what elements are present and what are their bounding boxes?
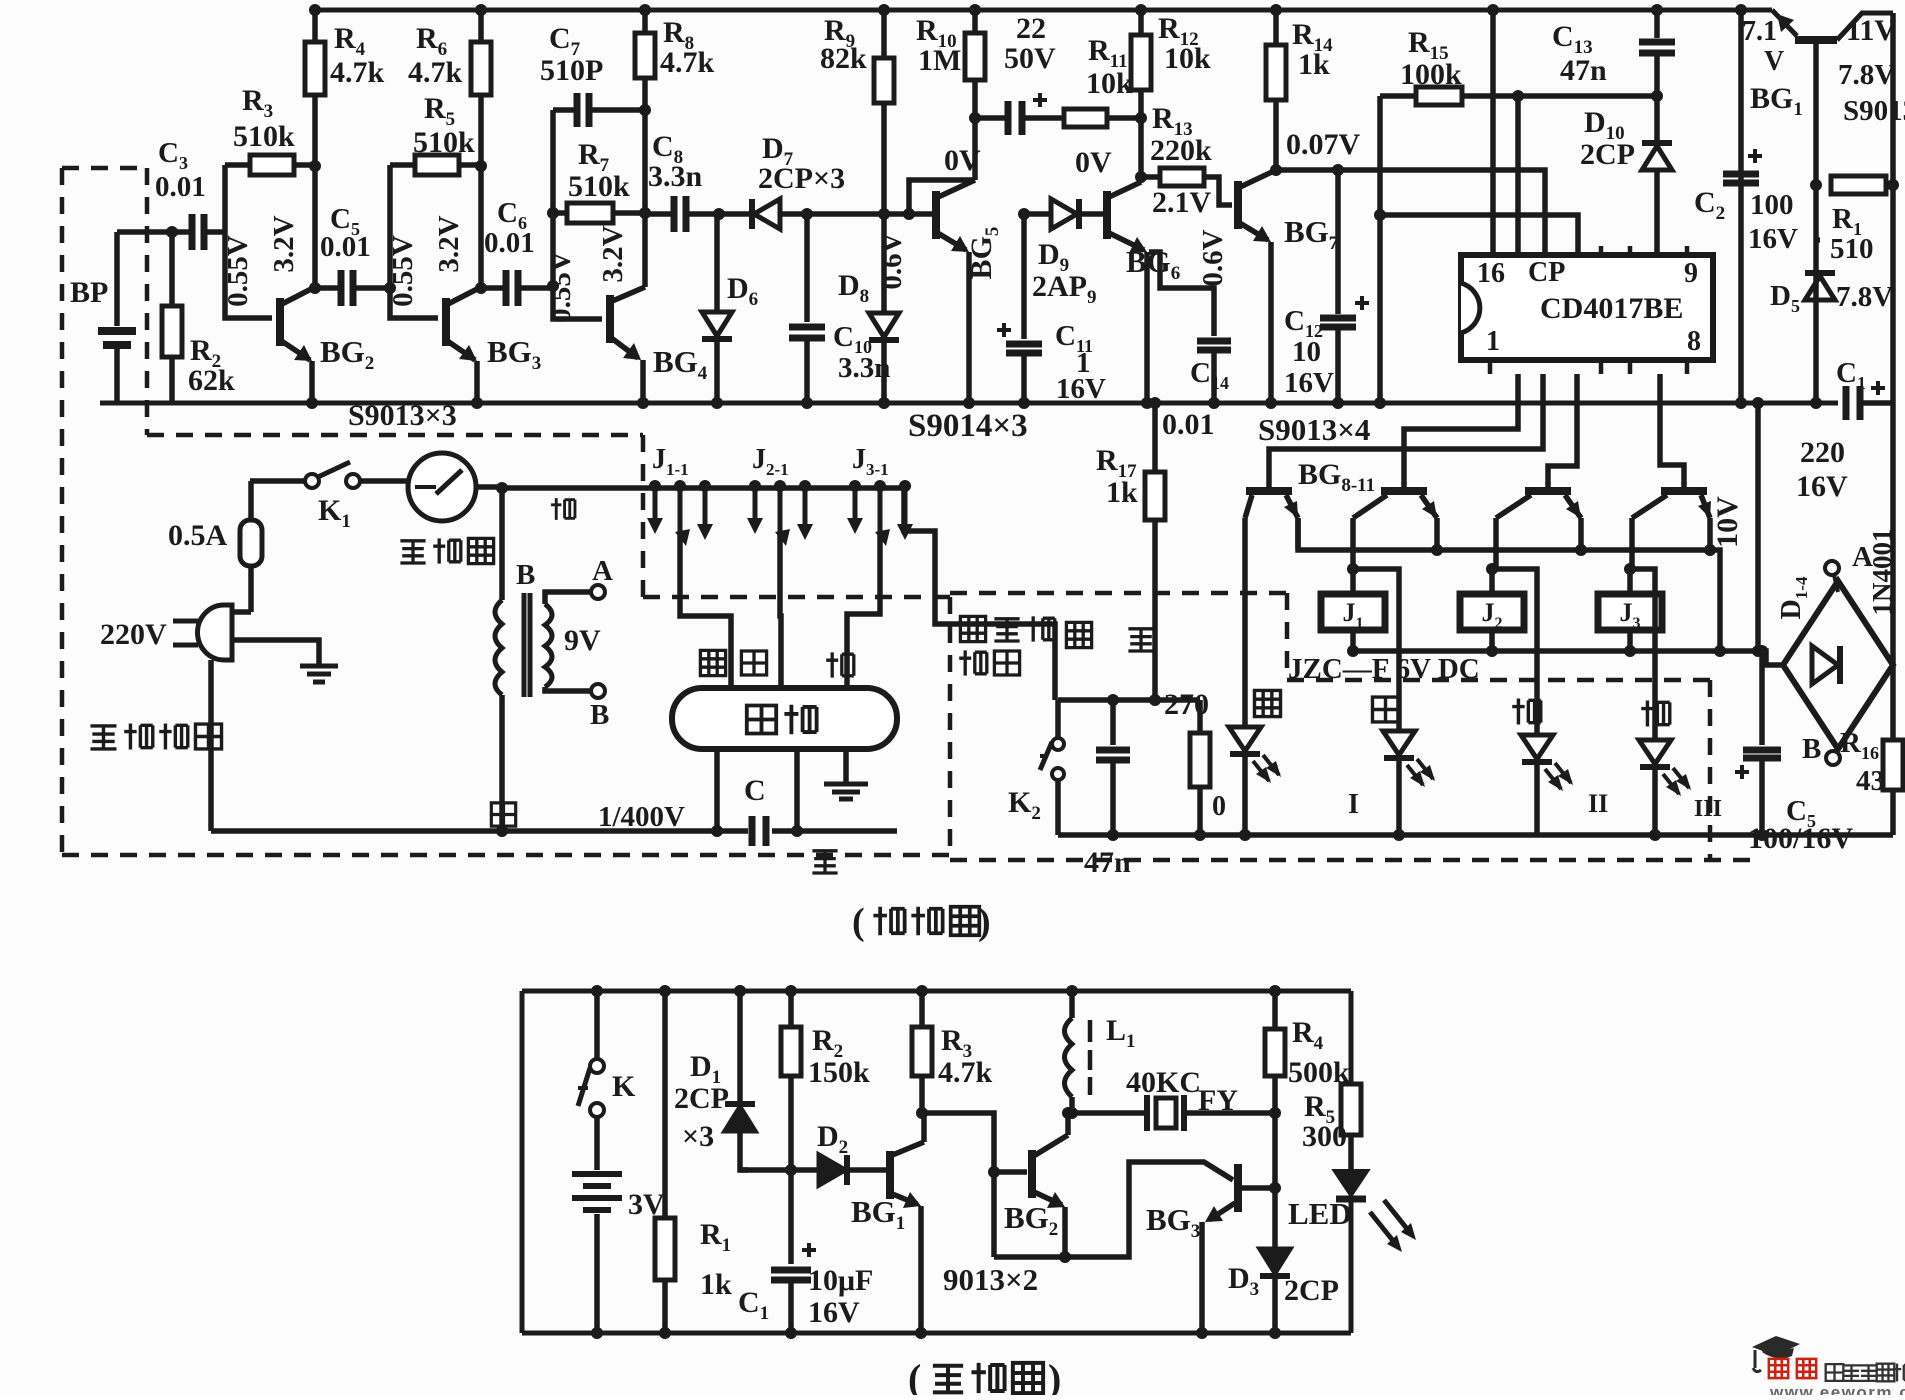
svg-text:9V: 9V [564, 624, 601, 657]
resistor R1 [1831, 176, 1886, 194]
diode D1 xmtr [737, 991, 743, 1104]
label brown2 CJK [826, 652, 854, 677]
svg-text:3.2V: 3.2V [433, 215, 465, 272]
microphone BP [114, 232, 120, 326]
label yellow CJK [1254, 690, 1280, 716]
timer [408, 453, 476, 521]
wire D9 node column [1021, 214, 1027, 339]
label base board CJK [90, 726, 116, 749]
plug 220V [198, 605, 232, 660]
label gray2 CJK [741, 651, 766, 675]
resistor R5 xmtr [1341, 1084, 1361, 1135]
contact group J1-1 [649, 480, 661, 492]
svg-text:B: B [590, 699, 609, 731]
svg-text:220: 220 [1800, 436, 1845, 469]
node [384, 282, 396, 294]
wire R15 left column [1377, 96, 1383, 403]
crystal FY [1072, 1110, 1145, 1116]
wire led gray column [1353, 569, 1399, 731]
capacitor C11 electrolytic [1006, 344, 1042, 353]
transformer secondary [545, 604, 552, 687]
resistor R9 [881, 10, 887, 58]
resistor R1 xmtr [662, 991, 668, 1218]
watermark cap [1752, 1336, 1800, 1356]
svg-text:100k: 100k [1400, 58, 1462, 91]
wire BG2 collector to C5 [315, 285, 341, 291]
wire top supply rail [318, 8, 1766, 13]
label red CJK [551, 498, 575, 520]
svg-text:2CP: 2CP [1580, 138, 1635, 171]
node [1332, 164, 1344, 176]
wire BG3 coll column [1272, 991, 1278, 1029]
svg-text:×3: ×3 [682, 1120, 714, 1153]
svg-text:8: 8 [1687, 326, 1701, 357]
svg-text:10k: 10k [1086, 67, 1133, 100]
svg-text:): ) [1048, 1356, 1061, 1395]
node [309, 282, 321, 294]
xmtr left edge [520, 991, 525, 1333]
xmtr bottom rail [522, 1331, 1351, 1336]
transistor BG2 xmtr [1028, 1150, 1036, 1198]
svg-text:2CP: 2CP [674, 1082, 729, 1115]
LED rays [1370, 1212, 1398, 1247]
transistor BG3 [442, 298, 450, 346]
svg-text:3.3n: 3.3n [648, 160, 703, 193]
wire contacts common 2 [780, 534, 781, 688]
IC top stubs [1601, 246, 1687, 255]
svg-text:0.07V: 0.07V [1286, 128, 1361, 161]
transistor BG1 xmtr [886, 1151, 894, 1199]
capacitor C6 [506, 270, 518, 306]
svg-text:10V: 10V [1711, 496, 1744, 548]
svg-text:4.7k: 4.7k [660, 46, 715, 79]
transistor BG4 [606, 295, 614, 343]
svg-text:47n: 47n [1084, 846, 1131, 879]
capacitor C12 electrolytic [1335, 170, 1341, 314]
svg-text:22: 22 [1016, 12, 1046, 45]
resistor R15 [1380, 93, 1416, 99]
node [475, 160, 487, 172]
transistor BG9 [1381, 487, 1427, 495]
switch K1 [250, 478, 305, 484]
svg-text:2AP9: 2AP9 [1032, 270, 1097, 308]
xmtr top rail [522, 989, 1351, 994]
dashed box bottom-left [147, 433, 643, 438]
svg-text:3.2V: 3.2V [268, 215, 300, 272]
svg-text:16V: 16V [1284, 367, 1334, 399]
resistor R5 [415, 155, 459, 175]
label black CJK [1066, 622, 1091, 647]
capacitor C13 [1654, 10, 1660, 38]
svg-text:16V: 16V [1056, 373, 1106, 405]
node dots top rail [309, 4, 321, 16]
svg-text:7.8V: 7.8V [1836, 281, 1893, 313]
svg-text:100: 100 [1750, 189, 1794, 221]
wire cap join [794, 818, 800, 831]
resistor R13 [1141, 174, 1160, 180]
wire R15 to C13 node [1518, 93, 1657, 99]
svg-text:0.5A: 0.5A [168, 519, 228, 552]
svg-text:CD4017BE: CD4017BE [1540, 292, 1683, 325]
wire D1 to D2 base line [740, 1167, 819, 1173]
label blue CJK a [1128, 629, 1153, 651]
svg-text:0.01: 0.01 [155, 171, 206, 203]
wire node down [991, 1172, 997, 1257]
LED brown [1521, 735, 1553, 759]
resistor R2 xmtr [788, 991, 794, 1027]
capacitor C1 on rail [1846, 386, 1860, 420]
relay J3 [1598, 594, 1662, 630]
capacitor C motor [752, 816, 766, 846]
svg-text:I: I [1348, 789, 1359, 820]
wire right edge [1890, 13, 1896, 403]
svg-text:7.8V: 7.8V [1838, 59, 1895, 91]
svg-text:(: ( [852, 901, 865, 943]
svg-text:www.eeworm.com: www.eeworm.com [1769, 1383, 1905, 1395]
xmtr bottom dots [591, 1327, 603, 1339]
label yellow2 CJK [700, 650, 725, 675]
capacitor C3 [192, 214, 204, 250]
svg-text:62k: 62k [188, 364, 235, 397]
wire BG1 coll to BG2 base [924, 1113, 1027, 1172]
svg-text:K: K [612, 1070, 636, 1103]
transistor BG5 [932, 191, 940, 239]
wire C5 to stage2 [353, 285, 390, 291]
wire IC pin to BG8 [1269, 374, 1543, 487]
svg-text:510P: 510P [540, 54, 603, 87]
svg-text:B: B [516, 559, 535, 591]
svg-text:4.7k: 4.7k [938, 1056, 993, 1089]
node [166, 226, 178, 238]
resistor R16 [1883, 740, 1903, 790]
svg-text:4.7k: 4.7k [408, 56, 463, 89]
resistor R2 [169, 232, 175, 306]
svg-text:2.1V: 2.1V [1152, 186, 1212, 219]
node [916, 1107, 928, 1119]
svg-text:0V: 0V [1075, 146, 1112, 179]
node [547, 207, 559, 219]
svg-text:7.1: 7.1 [1742, 16, 1777, 47]
resistor R8 [642, 10, 648, 33]
svg-text:0V: 0V [944, 144, 981, 177]
svg-text:10μF: 10μF [808, 1264, 873, 1297]
transistor BG1 power [1772, 10, 1797, 36]
svg-text:BP: BP [70, 276, 108, 309]
LED xmtr [1335, 1171, 1367, 1195]
diode D10 zener [1642, 146, 1672, 170]
svg-text:9013×2: 9013×2 [943, 1262, 1038, 1297]
svg-text:510k: 510k [568, 170, 630, 203]
svg-text:510k: 510k [233, 120, 295, 153]
svg-text:43: 43 [1856, 765, 1885, 797]
watermark bugs red [1769, 1359, 1788, 1378]
svg-text:300: 300 [1302, 1120, 1347, 1153]
contact group J3-1 [849, 480, 861, 492]
wire R15 node to IC pin [1380, 215, 1578, 255]
svg-text:2CP: 2CP [1284, 1274, 1339, 1307]
wire display bottom bus [1058, 832, 1893, 838]
resistor R17 [1152, 403, 1158, 472]
wire pin16 column [1490, 10, 1496, 255]
terminal B xfmr [591, 684, 605, 698]
transistor BG2 [276, 298, 284, 346]
svg-text:B: B [1802, 733, 1821, 765]
svg-text:S9013×3: S9013×3 [348, 399, 457, 432]
wire IC pin to BG9 [1404, 374, 1518, 487]
resistor R14 [1273, 10, 1279, 45]
svg-text:1: 1 [1486, 326, 1500, 357]
ground mains [300, 664, 338, 669]
svg-text:1/400V: 1/400V [598, 801, 685, 833]
wire collector BG7 to C12 node [1276, 167, 1338, 173]
svg-text:16V: 16V [1748, 223, 1798, 255]
battery 3V [594, 1117, 600, 1170]
svg-text:0.6V: 0.6V [1197, 229, 1229, 286]
diode D8 zener [881, 214, 887, 311]
node [988, 1166, 1000, 1178]
wire R4 to D3 [1272, 1113, 1278, 1247]
svg-text:): ) [978, 901, 991, 943]
resistor R4 [312, 10, 318, 42]
svg-text:82k: 82k [820, 42, 867, 75]
resistor R3 [225, 162, 250, 168]
node [969, 112, 981, 124]
wire led brown column [1492, 569, 1537, 735]
resistor R11 [1064, 109, 1107, 127]
wire timer to contacts [476, 484, 502, 490]
wire led red column [1630, 569, 1655, 740]
svg-text:40KC: 40KC [1126, 1066, 1201, 1099]
wire display node line [1058, 697, 1200, 703]
svg-text:0: 0 [1212, 791, 1226, 822]
capacitor C14 [1149, 252, 1214, 336]
diode D3 xmtr [1260, 1249, 1290, 1273]
bridge rectifier D1-4 [1783, 581, 1893, 749]
node [306, 397, 318, 409]
resistor R7 [567, 203, 613, 223]
diode D9 [1024, 211, 1051, 217]
label display board CJK [960, 616, 985, 641]
wire IC pin to BG10 [1548, 374, 1577, 487]
svg-text:LED: LED [1288, 1196, 1352, 1231]
transistor BG6 [1103, 191, 1111, 239]
node [801, 208, 813, 220]
wire motor left down [714, 749, 720, 831]
svg-text:9: 9 [1684, 258, 1698, 289]
svg-text:S9013×4: S9013×4 [1258, 412, 1370, 447]
xmtr rail dots [591, 985, 603, 997]
node [734, 985, 746, 997]
wire BG3 collector to C6 [481, 285, 506, 291]
wire BG1 base column [1813, 42, 1819, 403]
label brown CJK [1512, 698, 1541, 724]
IC bottom stubs [1490, 360, 1687, 374]
label white CJK [491, 803, 515, 826]
relay J2 [1460, 594, 1524, 630]
wire C3 to base column [204, 229, 225, 235]
wire rail to relay bus [1755, 403, 1761, 651]
relay J1 [1321, 594, 1385, 630]
svg-text:0.55V: 0.55V [387, 235, 419, 307]
label gray CJK [1372, 697, 1398, 722]
node [1270, 164, 1282, 176]
svg-text:16V: 16V [1796, 470, 1848, 503]
capacitor C1 xmtr electrolytic [771, 1270, 811, 1280]
svg-text:50V: 50V [1004, 42, 1056, 75]
svg-text:100/16V: 100/16V [1748, 822, 1853, 855]
dashed box display [950, 591, 1287, 596]
resistor R6 [478, 10, 484, 42]
wire led yellow column [1242, 724, 1248, 730]
svg-text:4.7k: 4.7k [330, 56, 385, 89]
transistor BG11 [1661, 487, 1707, 495]
wire motor bottom bus [211, 828, 748, 834]
svg-text:16: 16 [1477, 258, 1505, 289]
svg-text:A: A [592, 555, 613, 587]
resistor R12 [1138, 10, 1144, 35]
capacitor C5 recv electrolytic [1759, 651, 1765, 745]
svg-text:1k: 1k [700, 1268, 732, 1301]
wire base column BG2 [225, 165, 272, 318]
capacitor C8 [674, 196, 686, 232]
diode D7 [754, 199, 780, 229]
diode D6 [714, 214, 720, 310]
contact group J2-1 [749, 480, 761, 492]
wire C12 node to IC pin [1338, 170, 1545, 255]
fuse 0.5A [248, 481, 254, 520]
wire contacts common 3 [847, 534, 880, 688]
resistor R3 xmtr [919, 991, 925, 1027]
wire IC pin to BG11 [1660, 374, 1684, 487]
transformer core [522, 593, 527, 697]
svg-text:220k: 220k [1150, 134, 1212, 167]
resistor R10 [972, 10, 978, 33]
terminal B [1826, 751, 1840, 765]
IC U1 CD4017BE box [1461, 255, 1713, 360]
transistor BG8 [1246, 487, 1292, 495]
motor [672, 688, 897, 749]
svg-text:FY: FY [1198, 1084, 1238, 1117]
svg-text:0.55V: 0.55V [545, 251, 577, 323]
label red CJK2 [1641, 700, 1670, 726]
svg-text:510: 510 [1830, 233, 1874, 265]
wire D7 to R9 line [780, 211, 884, 217]
wire C8 line [645, 211, 672, 217]
capacitor 47n disp [1110, 700, 1116, 745]
terminal A [1825, 561, 1839, 575]
switch K2 [1055, 700, 1061, 737]
svg-text:47n: 47n [1560, 54, 1607, 87]
capacitor C9 electrolytic [1008, 101, 1022, 135]
wire C8 to D7 [686, 211, 752, 217]
svg-text:0.55V: 0.55V [222, 235, 254, 307]
transformer primary [499, 488, 505, 600]
wire base column BG4 [553, 110, 602, 319]
wire mic to C3 [117, 229, 190, 235]
wire emitter bus 10V [1298, 518, 1720, 651]
node [713, 208, 725, 220]
transistor BG10 [1525, 487, 1571, 495]
motor ground [843, 749, 849, 784]
label blue CJK b [812, 851, 837, 873]
svg-text:1k: 1k [1298, 48, 1330, 81]
node [475, 282, 487, 294]
wire C9 to R11 [1022, 115, 1064, 121]
terminal A xfmr [591, 585, 605, 599]
svg-text:10: 10 [1292, 336, 1321, 368]
wire emitter to BG3 base [994, 1162, 1233, 1257]
wire CP column [1515, 96, 1521, 255]
wire contacts common 1 [680, 534, 731, 688]
wire relay bus [1353, 651, 1783, 665]
svg-text:1k: 1k [1106, 476, 1138, 509]
svg-text:3.2V: 3.2V [597, 225, 629, 282]
node [309, 160, 321, 172]
svg-text:S9014×3: S9014×3 [908, 408, 1028, 444]
svg-text:0.6V: 0.6V [876, 232, 908, 289]
svg-text:1M: 1M [918, 44, 961, 77]
wire bottom common rail [100, 401, 1838, 406]
wire collector to C9 [975, 115, 1008, 121]
svg-text:(: ( [908, 1356, 921, 1395]
transistor BG7 [1234, 181, 1242, 229]
label timer CJK [400, 541, 425, 563]
node [1651, 90, 1663, 102]
wire base column BG3 [390, 165, 438, 318]
svg-text:C: C [744, 774, 766, 807]
svg-text:16V: 16V [808, 1296, 860, 1329]
node [1018, 208, 1030, 220]
wire plug neutral down [208, 660, 214, 831]
svg-text:0.01: 0.01 [1162, 408, 1215, 441]
node [1062, 1107, 1074, 1119]
node [471, 397, 483, 409]
watermark site CJK [1826, 1364, 1844, 1381]
svg-text:0.01: 0.01 [320, 231, 371, 263]
node [637, 397, 649, 409]
resistor 270 [1197, 700, 1203, 733]
diode D2 xmtr [819, 1155, 845, 1185]
svg-text:II: II [1588, 789, 1608, 818]
diode D5 zener [1816, 237, 1820, 243]
xmtr right edge top [1349, 991, 1354, 1084]
svg-text:10k: 10k [1164, 42, 1211, 75]
dashed box mic [62, 166, 147, 171]
svg-text:2CP×3: 2CP×3 [758, 162, 845, 195]
svg-text:220V: 220V [100, 618, 167, 651]
svg-text:0.01: 0.01 [484, 227, 535, 259]
resistor R4 xmtr [1265, 1029, 1285, 1076]
svg-text:CP: CP [1528, 257, 1565, 288]
wire C6 to stage3 [518, 285, 553, 291]
node [878, 208, 890, 220]
capacitor C5 [341, 270, 353, 306]
node [1135, 112, 1147, 124]
svg-text:11V: 11V [1846, 14, 1896, 47]
capacitor C2 electrolytic [1738, 10, 1744, 403]
capacitor C10 [804, 214, 810, 322]
LED gray [1383, 731, 1415, 755]
svg-text:510k: 510k [413, 126, 475, 159]
wire motor right down [794, 749, 800, 818]
node [1714, 645, 1726, 657]
svg-text:150k: 150k [808, 1056, 870, 1089]
node [639, 104, 651, 116]
svg-text:V: V [1764, 46, 1784, 77]
wire black feed from contacts [904, 486, 1055, 700]
LED yellow [1229, 727, 1261, 751]
node [1066, 1107, 1078, 1119]
